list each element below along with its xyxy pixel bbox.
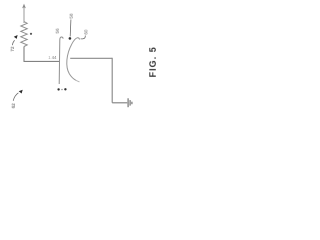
label 62 with curved arrow (bottom left) bbox=[19, 90, 23, 94]
electrode: left contact (vertical with hook top) bbox=[59, 37, 63, 84]
svg-text:FIG. 5: FIG. 5 bbox=[148, 46, 158, 77]
wire: horizontal lower-left bbox=[24, 60, 61, 62]
svg-text:44: 44 bbox=[52, 55, 57, 60]
wire: right vertical bbox=[111, 58, 113, 103]
svg-text:56: 56 bbox=[55, 28, 60, 34]
wire: input lead with up arrow bbox=[23, 7, 25, 23]
resistor R (zigzag) bbox=[21, 22, 27, 47]
arrowhead: input arrow tip bbox=[22, 4, 26, 9]
ground (rotated, pointing right) bbox=[128, 98, 132, 107]
svg-text:58: 58 bbox=[69, 13, 74, 19]
svg-text:60: 60 bbox=[84, 29, 89, 35]
electrode: right contact (curved blade) bbox=[67, 38, 80, 81]
label dot right of resistor bbox=[30, 33, 32, 35]
wire: upper right horizontal bbox=[70, 57, 112, 59]
svg-text:72: 72 bbox=[10, 46, 15, 52]
wire: bottom horizontal to ground bbox=[112, 102, 127, 104]
label 72 with curved arrow to resistor bbox=[14, 35, 18, 39]
contact dots below electrodes bbox=[57, 88, 59, 90]
svg-text:62: 62 bbox=[11, 103, 16, 109]
wire: resistor bottom to corner bbox=[23, 47, 25, 62]
